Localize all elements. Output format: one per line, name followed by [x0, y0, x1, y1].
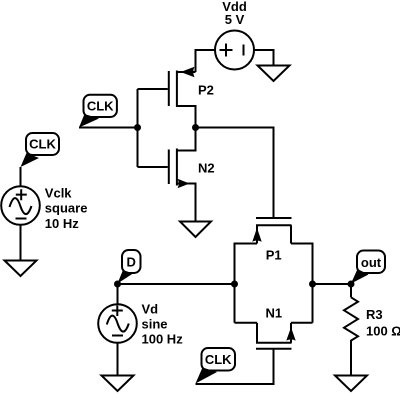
- callout CLK (inverter input): [79, 95, 117, 128]
- N2 gate bar: [168, 150, 170, 185]
- N1 gate lead: [196, 349, 274, 384]
- wire Vclk to ground: [20, 225, 22, 261]
- node out: [348, 281, 355, 288]
- transistor P1 (PMOS pass gate): [235, 218, 313, 323]
- transistor P2 (PMOS): [169, 67, 196, 128]
- node inverter input: [134, 124, 141, 131]
- svg-text:sine: sine: [142, 317, 168, 332]
- P2 arrow: [181, 67, 195, 77]
- P1 channel: [256, 224, 292, 226]
- ground (Vclk): [5, 261, 37, 277]
- wire inverter input vertical: [137, 89, 139, 167]
- wire inverter output to P1 gate: [196, 128, 274, 218]
- svg-text:100 Hz: 100 Hz: [142, 332, 184, 347]
- P1 right stub: [290, 225, 292, 243]
- N1 gate bar: [256, 348, 292, 350]
- Vd sine glyph: [107, 316, 129, 332]
- Vclk sine glyph: [10, 198, 32, 214]
- svg-text:10 Hz: 10 Hz: [45, 216, 79, 231]
- R3 zigzag: [344, 297, 358, 345]
- wire CLK to inverter input: [79, 127, 138, 129]
- transistor N1 (NMOS pass gate): [196, 323, 313, 384]
- svg-text:100 Ω: 100 Ω: [366, 324, 400, 339]
- Vd plus: [112, 306, 123, 317]
- voltage source V1 (Vdd DC source): [215, 31, 254, 70]
- svg-text:R3: R3: [366, 307, 383, 322]
- P1 left stub: [256, 225, 258, 243]
- ground (Vd): [102, 376, 134, 392]
- P1 gate bar: [256, 217, 292, 219]
- wire V1 right to ground: [254, 50, 274, 66]
- node pass gate output: [309, 281, 316, 288]
- callout CLK (N1 gate): [196, 348, 236, 384]
- node pass gate input: [231, 281, 238, 288]
- node D: [114, 281, 121, 288]
- P1 arrow: [252, 228, 261, 242]
- N1 left stub: [256, 323, 258, 343]
- svg-text:5 V: 5 V: [225, 12, 245, 27]
- svg-text:Vd: Vd: [142, 301, 159, 316]
- node inverter output: [192, 124, 199, 131]
- wire D node to pass gate input: [118, 283, 235, 285]
- N1 arrow: [286, 327, 295, 340]
- P1 right lead: [291, 244, 313, 323]
- P1 left lead: [235, 244, 258, 323]
- N2 source lead: [177, 184, 196, 222]
- wire P2 gate lead: [138, 88, 168, 90]
- wire N2 gate lead: [138, 166, 168, 168]
- wire Vd to ground: [117, 343, 119, 376]
- svg-text:CLK: CLK: [205, 352, 232, 367]
- svg-text:out: out: [361, 255, 382, 270]
- callout D: [118, 250, 141, 284]
- voltage source Vd (sine 100 Hz): [98, 284, 137, 376]
- svg-text:D: D: [127, 254, 136, 269]
- V1 plus sign: [220, 44, 233, 57]
- P2 source lead: [177, 71, 196, 73]
- wire CLK tail to Vclk: [20, 167, 22, 186]
- svg-text:P2: P2: [198, 83, 214, 98]
- Vd minus: [112, 335, 123, 337]
- N1 left lead: [235, 322, 258, 324]
- P2 channel: [176, 71, 178, 108]
- Vclk minus: [16, 218, 27, 220]
- N2 drain lead: [177, 106, 196, 151]
- wire V1 left to P2 source: [196, 50, 216, 72]
- svg-text:CLK: CLK: [87, 99, 114, 114]
- N1 channel: [256, 342, 292, 344]
- callout CLK (Vclk source): [21, 133, 60, 167]
- P2 gate bar: [168, 71, 170, 106]
- svg-text:CLK: CLK: [29, 137, 56, 152]
- ground (Vdd): [258, 66, 290, 82]
- V1 minus bar: [243, 45, 245, 56]
- transistor N2 (NMOS): [169, 106, 196, 222]
- callout out: [351, 251, 385, 284]
- svg-text:Vclk: Vclk: [45, 185, 73, 200]
- ground (R3): [335, 376, 367, 392]
- N2 arrow: [178, 179, 190, 188]
- Vclk plus: [16, 189, 27, 200]
- resistor R3: [344, 284, 358, 376]
- svg-text:square: square: [45, 201, 88, 216]
- wire out node to R3: [350, 284, 352, 297]
- ground (N2 source): [180, 222, 211, 238]
- N1 right lead: [291, 322, 313, 324]
- voltage source Vclk (square 10 Hz): [1, 167, 40, 261]
- wire pass gate output to out node: [313, 283, 352, 285]
- svg-text:N1: N1: [266, 305, 283, 320]
- wire D node to Vd: [117, 284, 119, 304]
- wire R3 to ground: [350, 345, 352, 376]
- P2 drain lead: [177, 106, 196, 128]
- N2 channel: [176, 149, 178, 186]
- N1 right stub: [290, 323, 292, 343]
- svg-text:N2: N2: [198, 160, 215, 175]
- svg-text:P1: P1: [266, 248, 282, 263]
